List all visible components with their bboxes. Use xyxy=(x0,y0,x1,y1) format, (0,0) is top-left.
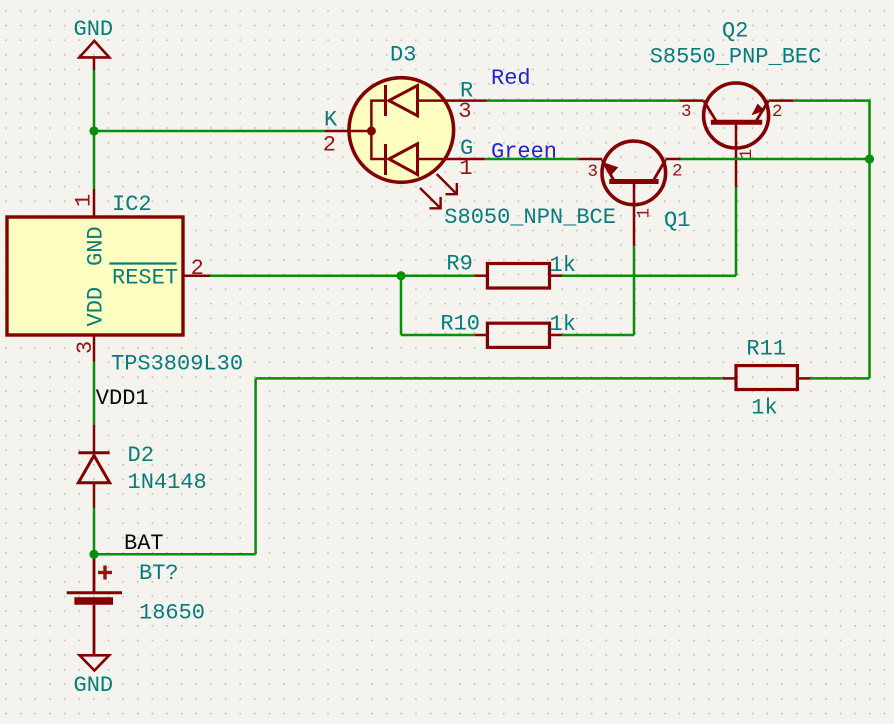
IC2 TPS3809L30 body xyxy=(7,192,243,377)
svg-text:GND: GND xyxy=(84,226,109,266)
wire to R10 left xyxy=(401,334,475,337)
wire R10 right to Q1 base column xyxy=(562,334,634,337)
svg-text:1k: 1k xyxy=(550,312,576,337)
power symbol GND (top) xyxy=(74,17,114,70)
svg-text:3: 3 xyxy=(73,341,98,354)
wire junction down to R10 row xyxy=(400,276,403,335)
wire Q1 pin2 to right vertical xyxy=(681,158,870,161)
resistor R10 xyxy=(440,311,576,347)
D3 pin R (3) xyxy=(454,79,487,125)
Q2 pin 2 (emitter) xyxy=(769,101,794,122)
junction dot at right vertical / Green net xyxy=(865,154,874,163)
svg-text:1N4148: 1N4148 xyxy=(128,470,207,495)
wire D2 to BAT junction xyxy=(93,508,96,555)
svg-text:1: 1 xyxy=(635,208,655,219)
svg-text:1k: 1k xyxy=(751,396,777,421)
wire Green net D3.G to Q1 pin3 xyxy=(485,158,579,161)
D3 pin K (2) xyxy=(323,108,372,158)
text note Red xyxy=(491,66,531,91)
text note Green xyxy=(491,139,557,164)
svg-text:D2: D2 xyxy=(128,443,154,468)
junction dot at GND/IC2/D3 node xyxy=(89,126,98,135)
D3 lower diode (G anode) xyxy=(371,131,454,175)
diode D2 1N4148 xyxy=(78,425,206,508)
svg-text:D3: D3 xyxy=(390,43,416,68)
svg-text:2: 2 xyxy=(323,133,336,158)
junction dot at BAT node xyxy=(89,550,98,559)
wire BAT junction to right xyxy=(94,553,256,556)
wire BAT to R11 xyxy=(256,377,723,380)
svg-text:3: 3 xyxy=(681,102,692,122)
IC2 pin 1 xyxy=(72,189,97,217)
svg-text:IC2: IC2 xyxy=(112,192,152,217)
svg-text:1k: 1k xyxy=(550,253,576,278)
D3 upper diode (R anode) xyxy=(371,85,454,131)
wire Q2 pin2 to right corner xyxy=(794,99,871,102)
svg-text:BAT: BAT xyxy=(124,531,164,556)
wire junction to D3 K xyxy=(94,130,325,133)
svg-text:1: 1 xyxy=(72,194,97,207)
D3 pin G (1) xyxy=(454,136,485,181)
wire IC2 pin2 RESET to R9 xyxy=(210,274,475,277)
svg-text:2: 2 xyxy=(772,102,783,122)
svg-text:1: 1 xyxy=(459,156,472,181)
wire GND to IC2 pin1 xyxy=(93,70,96,189)
svg-text:Q2: Q2 xyxy=(722,19,748,44)
Q1 pin 1 (base) xyxy=(634,182,655,246)
svg-text:BT?: BT? xyxy=(139,561,179,586)
wire R11 right xyxy=(810,377,870,380)
svg-text:RESET: RESET xyxy=(112,266,178,291)
svg-text:S8050_NPN_BCE: S8050_NPN_BCE xyxy=(444,205,616,230)
svg-text:Red: Red xyxy=(491,66,531,91)
svg-text:VDD1: VDD1 xyxy=(96,386,149,411)
LED D3 body xyxy=(349,43,454,183)
wire R9 right to Q2 base column xyxy=(562,274,736,277)
svg-text:GND: GND xyxy=(74,17,114,42)
battery BT? 18650 xyxy=(67,554,205,655)
svg-text:3: 3 xyxy=(458,99,471,124)
transistor Q1 S8050_NPN_BCE xyxy=(444,141,690,233)
wire right vertical xyxy=(868,101,871,379)
wire IC2 pin3 to D2 xyxy=(93,362,96,425)
svg-text:VDD: VDD xyxy=(84,287,109,327)
svg-text:3: 3 xyxy=(588,162,599,182)
wire Red net D3.R to Q2 pin3 xyxy=(487,99,680,102)
svg-text:S8550_PNP_BEC: S8550_PNP_BEC xyxy=(650,44,822,69)
power symbol GND (bottom) xyxy=(74,655,114,698)
Q1 pin 3 (emitter) xyxy=(578,159,602,182)
svg-text:2: 2 xyxy=(191,256,204,281)
wire BAT vertical riser xyxy=(254,378,257,554)
svg-text:R11: R11 xyxy=(746,336,786,361)
svg-text:K: K xyxy=(324,108,338,133)
transistor Q2 S8550_PNP_BEC xyxy=(650,19,822,149)
svg-text:1: 1 xyxy=(737,149,757,160)
IC2 pin 3 xyxy=(73,335,98,362)
wire Q2 base vertical xyxy=(735,187,738,276)
svg-text:GND: GND xyxy=(74,673,114,698)
svg-text:Green: Green xyxy=(491,139,557,164)
Q1 pin 2 (collector) xyxy=(665,159,682,182)
wire Q1 base vertical xyxy=(633,246,636,335)
Q2 pin 1 (base) xyxy=(736,122,757,187)
svg-text:2: 2 xyxy=(672,162,683,182)
resistor R11 xyxy=(723,336,810,420)
svg-text:18650: 18650 xyxy=(139,601,205,626)
IC2 pin 2 xyxy=(183,256,210,281)
svg-text:R10: R10 xyxy=(440,311,480,336)
net label VDD1 xyxy=(96,386,149,411)
resistor R9 xyxy=(446,252,576,289)
svg-text:Q1: Q1 xyxy=(664,208,690,233)
junction dot at RESET/R9/R10 node xyxy=(396,271,405,280)
svg-text:TPS3809L30: TPS3809L30 xyxy=(111,352,243,377)
svg-text:R9: R9 xyxy=(446,252,472,277)
D3 LED emission arrows xyxy=(420,174,457,208)
Q2 pin 3 (collector) xyxy=(680,101,704,122)
net label BAT xyxy=(124,531,164,556)
D3 internal cathode junction xyxy=(367,127,376,136)
